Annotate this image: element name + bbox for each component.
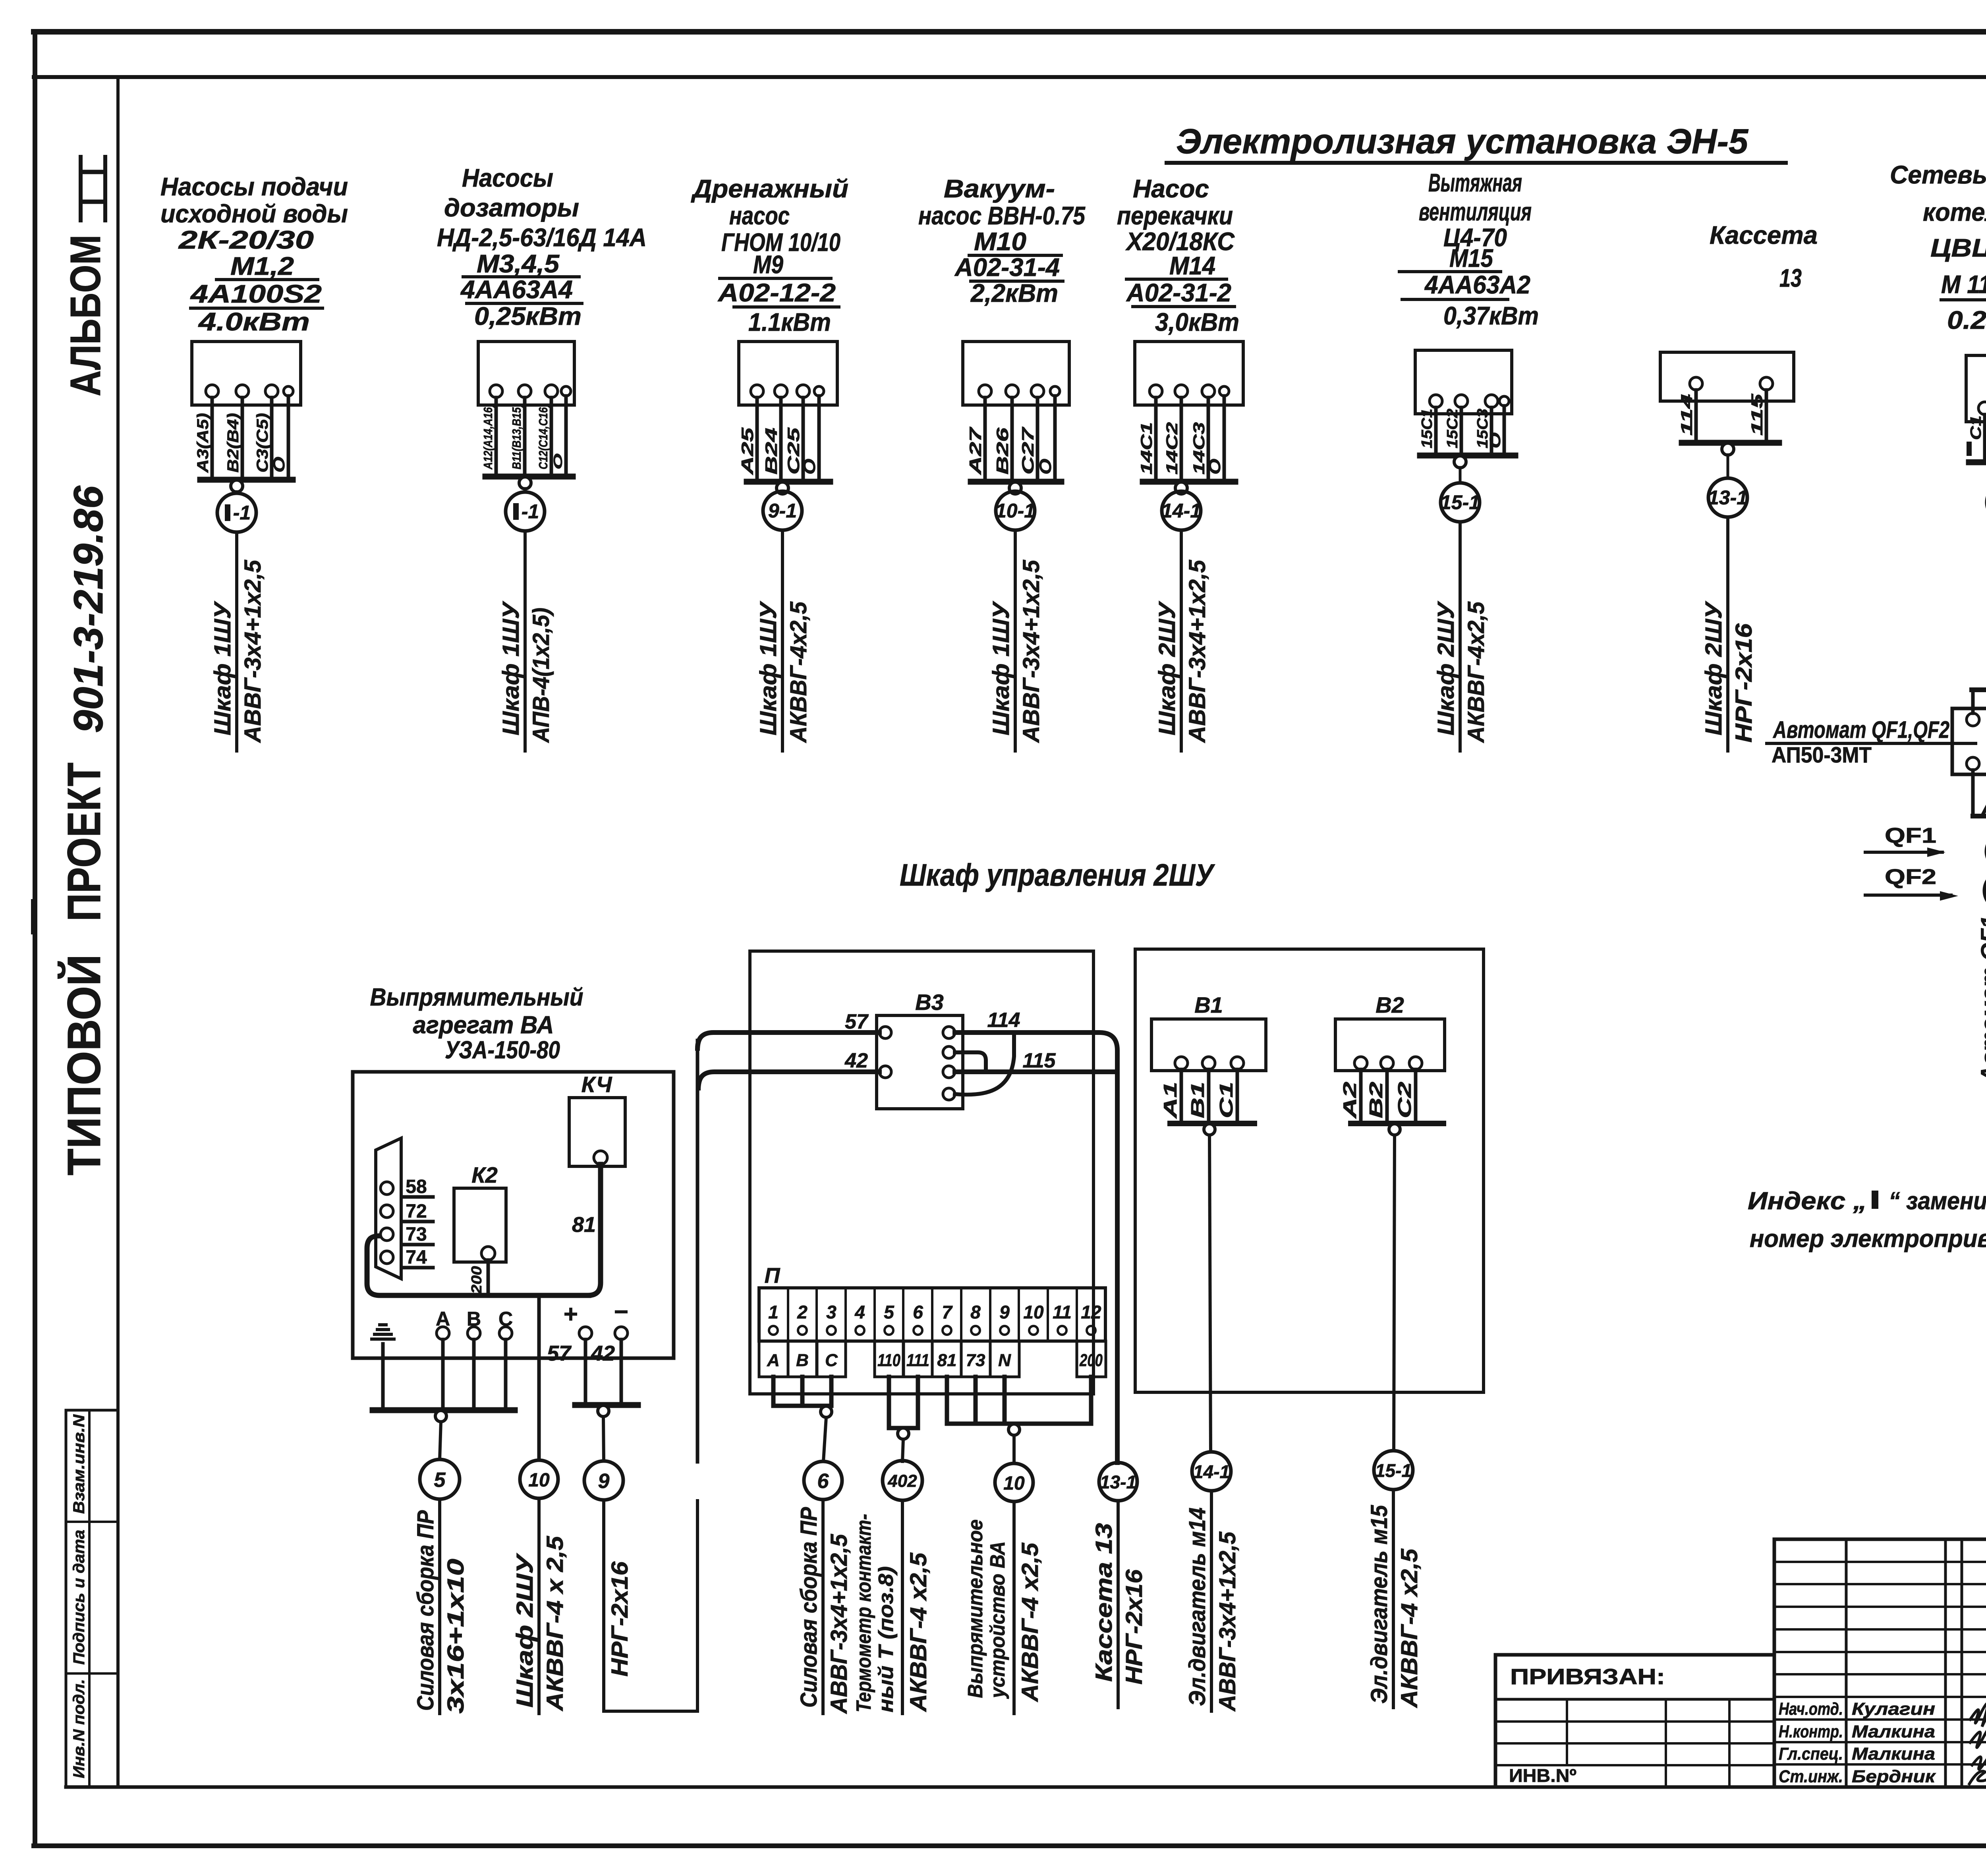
svg-text:Эл.двигатель м14: Эл.двигатель м14 xyxy=(1184,1507,1210,1706)
svg-text:О: О xyxy=(1487,432,1504,448)
label Выпрямительный агрегат ВА УЗА-150-80 xyxy=(370,984,583,1064)
wire to cable 10 xyxy=(537,1295,541,1460)
svg-text:ЦВЦ 6.3-3.5: ЦВЦ 6.3-3.5 xyxy=(1930,234,1986,262)
svg-text:А02-31-2: А02-31-2 xyxy=(1126,278,1231,307)
svg-text:Шкаф управления 2ШУ: Шкаф управления 2ШУ xyxy=(900,857,1215,892)
svg-text:Нач.отд.: Нач.отд. xyxy=(1779,1699,1843,1719)
transfer pump column M14 (Насос перекачки Х20/18КС) xyxy=(1117,174,1243,751)
terminal plus 57 xyxy=(547,1301,592,1405)
svg-text:N: N xyxy=(998,1351,1011,1370)
svg-text:Шкаф 1ШУ: Шкаф 1ШУ xyxy=(498,601,524,735)
node 13-1 xyxy=(1099,1463,1137,1501)
svg-text:С27: С27 xyxy=(1018,427,1037,475)
svg-text:АКВВГ-4 х2,5: АКВВГ-4 х2,5 xyxy=(1017,1542,1043,1702)
signature row Н.контр. Малкина xyxy=(1779,1722,1935,1741)
svg-text:насос ВВН-0.75: насос ВВН-0.75 xyxy=(918,201,1086,230)
svg-text:4АА63А2: 4АА63А2 xyxy=(1424,270,1530,299)
cabinet 2ШУ right box xyxy=(1135,949,1484,1392)
svg-text:дозаторы: дозаторы xyxy=(444,193,579,222)
svg-text:А1: А1 xyxy=(1160,1082,1180,1119)
cable Шкаф 2ШУ АКВВГ-4х2,5 xyxy=(512,1498,568,1714)
svg-text:Н.контр.: Н.контр. xyxy=(1779,1722,1843,1741)
svg-text:Термометр контакт-: Термометр контакт- xyxy=(852,1514,875,1712)
margin fold mark xyxy=(31,902,37,931)
svg-text:А3(А5): А3(А5) xyxy=(194,413,212,473)
svg-text:А2: А2 xyxy=(1339,1081,1360,1119)
svg-text:73: 73 xyxy=(966,1351,985,1370)
node 6 xyxy=(804,1461,842,1500)
svg-text:С1: С1 xyxy=(1216,1082,1236,1118)
svg-text:Кассета 13: Кассета 13 xyxy=(1091,1523,1117,1682)
margin stamp column boxes xyxy=(66,1410,118,1787)
svg-text:Кулагин: Кулагин xyxy=(1852,1699,1935,1719)
svg-text:АПВ-4(1х2,5): АПВ-4(1х2,5) xyxy=(528,608,554,743)
svg-text:15С1: 15С1 xyxy=(1419,409,1435,448)
svg-text:ный Т (поз.8): ный Т (поз.8) xyxy=(875,1566,898,1712)
bus bar VA dc xyxy=(575,1405,638,1461)
node 15-1 xyxy=(1374,1451,1413,1490)
bus bar V1 xyxy=(1170,1123,1254,1452)
svg-text:Насос: Насос xyxy=(1133,174,1209,203)
svg-text:0,37кВт: 0,37кВт xyxy=(1443,301,1539,330)
svg-text:Выпрямительное: Выпрямительное xyxy=(964,1519,987,1698)
margin title ТИПОВОЙ xyxy=(57,954,110,1175)
svg-text:14-1: 14-1 xyxy=(1193,1461,1230,1482)
svg-text:НРГ-2х16: НРГ-2х16 xyxy=(1121,1569,1147,1685)
node 10 (VA) xyxy=(520,1460,558,1498)
terminal B xyxy=(467,1308,481,1410)
svg-text:АВВГ-3х4+1х2,5: АВВГ-3х4+1х2,5 xyxy=(1184,560,1210,743)
svg-text:72: 72 xyxy=(406,1201,427,1222)
svg-text:9: 9 xyxy=(999,1302,1010,1322)
jumper V3 a xyxy=(955,1052,986,1070)
svg-text:насос: насос xyxy=(729,201,790,230)
svg-text:М10: М10 xyxy=(974,227,1026,256)
svg-text:М 11,12: М 11,12 xyxy=(1941,270,1986,299)
starter V1 xyxy=(1151,992,1266,1123)
svg-text:-1: -1 xyxy=(522,500,539,523)
svg-text:НРГ-2х16: НРГ-2х16 xyxy=(607,1561,633,1677)
svg-text:В3: В3 xyxy=(915,990,944,1015)
svg-text:устройство ВА: устройство ВА xyxy=(986,1541,1009,1699)
svg-text:Насосы подачи: Насосы подачи xyxy=(160,172,348,201)
svg-text:В26: В26 xyxy=(993,427,1012,475)
title Электролизная установка ЭН-5 xyxy=(1167,122,1786,163)
bus bar VA abc xyxy=(373,1410,515,1459)
svg-text:10: 10 xyxy=(528,1470,550,1491)
pump column M1,2 (Насосы подачи исходной воды 2К-20/30) xyxy=(160,172,348,751)
bus bar V2 xyxy=(1351,1123,1443,1451)
cable Термометр контактный Т (node 402) xyxy=(852,1500,931,1714)
margin title АЛЬБОМ xyxy=(61,235,109,396)
node 5 xyxy=(420,1459,460,1499)
svg-text:Автомат QF1,QF2: Автомат QF1,QF2 xyxy=(1772,716,1949,743)
svg-text:115: 115 xyxy=(1748,394,1766,436)
svg-text:Сетевые насосы: Сетевые насосы xyxy=(1890,160,1986,189)
label ПРИВЯЗАН xyxy=(1510,1664,1665,1689)
svg-text:901-3-219.86: 901-3-219.86 xyxy=(66,485,112,733)
margin title ПРОЕКТ xyxy=(58,762,110,921)
svg-text:М1,2: М1,2 xyxy=(230,252,294,280)
svg-text:Подпись и дата: Подпись и дата xyxy=(70,1530,88,1665)
cabinet 2ШУ left box xyxy=(750,951,1093,1394)
wire 81 xyxy=(572,1164,601,1295)
svg-text:Шкаф 2ШУ: Шкаф 2ШУ xyxy=(1154,601,1180,735)
signature row Нач.отд. Кулагин xyxy=(1779,1699,1935,1719)
svg-text:А02-31-4: А02-31-4 xyxy=(954,253,1060,282)
terminal A xyxy=(436,1308,450,1410)
node 10 (strip) xyxy=(995,1463,1033,1502)
svg-text:котельной: котельной xyxy=(1923,198,1986,226)
switch V3 xyxy=(877,990,963,1109)
svg-text:В: В xyxy=(796,1351,809,1370)
label QF1 with arrow xyxy=(1865,824,1945,857)
svg-text:58: 58 xyxy=(406,1176,427,1197)
exhaust fan column M15 (Вытяжная вентиляция Ц4-70) xyxy=(1399,168,1539,751)
svg-text:Гл.спец.: Гл.спец. xyxy=(1779,1744,1843,1764)
svg-text:О: О xyxy=(270,457,288,473)
wire cable Автомат QF1 xyxy=(1976,906,1986,1087)
svg-text:2К-20/30: 2К-20/30 xyxy=(178,226,314,254)
svg-text:3,0кВт: 3,0кВт xyxy=(1155,308,1239,336)
svg-text:Шкаф 1ШУ: Шкаф 1ШУ xyxy=(988,601,1014,735)
label ИНВ.№ xyxy=(1509,1765,1576,1786)
wire 9 riser xyxy=(696,1040,699,1462)
svg-text:ПРИВЯЗАН:: ПРИВЯЗАН: xyxy=(1510,1664,1665,1689)
svg-text:73: 73 xyxy=(406,1224,427,1245)
svg-text:10: 10 xyxy=(1003,1473,1025,1494)
svg-text:15-1: 15-1 xyxy=(1375,1460,1412,1481)
svg-text:14С2: 14С2 xyxy=(1163,422,1181,475)
svg-text:вентиляция: вентиляция xyxy=(1419,197,1532,226)
svg-text:В1: В1 xyxy=(1187,1082,1208,1118)
cassette column 13 (Кассета 13) xyxy=(1660,221,1818,751)
svg-text:13-1: 13-1 xyxy=(1708,486,1748,509)
svg-text:81: 81 xyxy=(572,1213,596,1237)
svg-text:А27: А27 xyxy=(966,427,985,475)
margin label Инв.N подл. xyxy=(70,1679,88,1778)
label Автомат QF1,QF2 / АП50-3МТ xyxy=(1767,716,1976,767)
margin label Взам.инв.N xyxy=(70,1414,88,1514)
svg-text:М15: М15 xyxy=(1449,244,1493,272)
svg-text:О: О xyxy=(1036,459,1055,475)
svg-text:А12(А14,А16): А12(А14,А16) xyxy=(481,404,495,470)
svg-text:Кассета: Кассета xyxy=(1710,221,1818,249)
svg-text:А25: А25 xyxy=(738,427,757,475)
signature row Гл.спец. Малкина xyxy=(1779,1744,1935,1764)
connector pin 58 xyxy=(402,1176,433,1197)
svg-text:0.24кВт: 0.24кВт xyxy=(1947,306,1986,334)
svg-text:Вакуум-: Вакуум- xyxy=(944,174,1055,203)
svg-text:АКВВГ-4х2,5: АКВВГ-4х2,5 xyxy=(1463,601,1489,743)
svg-text:57: 57 xyxy=(547,1341,572,1365)
svg-text:О: О xyxy=(551,454,565,469)
svg-text:А02-12-2: А02-12-2 xyxy=(717,278,836,307)
signature row Ст.инж. Бердник xyxy=(1779,1767,1936,1786)
starter V2 xyxy=(1335,992,1445,1123)
svg-text:114: 114 xyxy=(1678,394,1696,436)
svg-text:Взам.инв.N: Взам.инв.N xyxy=(70,1414,88,1514)
wire 115 xyxy=(955,1049,1115,1072)
svg-text:К2: К2 xyxy=(471,1162,498,1187)
svg-text:АЛЬБОМ: АЛЬБОМ xyxy=(61,235,109,396)
svg-text:111: 111 xyxy=(906,1351,929,1370)
svg-text:13: 13 xyxy=(1779,264,1802,292)
svg-text:2,2кВт: 2,2кВт xyxy=(970,279,1058,307)
connector X1 xyxy=(376,1138,401,1279)
terminal minus 42 xyxy=(591,1298,628,1405)
svg-text:200: 200 xyxy=(1079,1351,1103,1370)
cable Эл.двигатель М15 xyxy=(1366,1490,1422,1708)
svg-text:А: А xyxy=(767,1351,780,1370)
wire 57 xyxy=(697,1010,879,1048)
svg-text:6: 6 xyxy=(817,1470,829,1493)
svg-text:Инв.N подл.: Инв.N подл. xyxy=(70,1679,88,1778)
svg-text:3х16+1х10: 3х16+1х10 xyxy=(443,1559,469,1714)
svg-text:Шкаф 2ШУ: Шкаф 2ШУ xyxy=(1433,601,1459,735)
svg-text:АКВВГ-4 х2,5: АКВВГ-4 х2,5 xyxy=(906,1552,931,1712)
svg-text:М14: М14 xyxy=(1169,251,1215,280)
note line 2 xyxy=(1750,1225,1986,1253)
svg-text:УЗА-150-80: УЗА-150-80 xyxy=(445,1036,560,1064)
svg-text:9: 9 xyxy=(598,1470,610,1493)
svg-text:10: 10 xyxy=(1023,1302,1044,1322)
cable Выпрямительное устройство ВА (node 10) xyxy=(964,1502,1043,1714)
svg-text:57: 57 xyxy=(845,1010,869,1033)
margin numeral II xyxy=(81,157,105,220)
note line 1 xyxy=(1748,1187,1986,1215)
svg-text:Силовая сборка ПР: Силовая сборка ПР xyxy=(413,1510,439,1711)
svg-text:8: 8 xyxy=(970,1302,981,1322)
svg-text:агрегат ВА: агрегат ВА xyxy=(413,1011,554,1039)
svg-text:ТИПОВОЙ: ТИПОВОЙ xyxy=(57,954,110,1175)
node 9 (VA) xyxy=(584,1461,623,1500)
svg-text:5: 5 xyxy=(884,1302,894,1322)
svg-text:АВВГ-3х4+1х2,5: АВВГ-3х4+1х2,5 xyxy=(1215,1531,1240,1712)
wire 42 xyxy=(698,1049,879,1088)
wire 200 xyxy=(468,1260,488,1295)
svg-text:В24: В24 xyxy=(762,428,780,475)
svg-text:Насосы: Насосы xyxy=(462,164,553,192)
svg-text:М3,4,5: М3,4,5 xyxy=(477,249,560,278)
svg-text:Силовая сборка ПР: Силовая сборка ПР xyxy=(796,1507,822,1708)
svg-text:42: 42 xyxy=(844,1049,868,1072)
terminal strip П xyxy=(759,1264,1106,1377)
svg-text:Эл.двигатель м15: Эл.двигатель м15 xyxy=(1366,1505,1392,1704)
wire 114 xyxy=(955,1009,1117,1463)
cable 9 U-link НРГ-2х16 xyxy=(604,1500,697,1711)
svg-text:7: 7 xyxy=(942,1302,953,1322)
svg-text:4А100S2: 4А100S2 xyxy=(190,280,322,308)
svg-text:0,25кВт: 0,25кВт xyxy=(474,302,582,330)
svg-text:5: 5 xyxy=(434,1469,446,1492)
svg-text:Бердник: Бердник xyxy=(1852,1767,1936,1786)
svg-text:В11(В13,В15): В11(В13,В15) xyxy=(510,404,524,469)
vacuum pump column M10 (Вакуум-насос ВВН-0.75) xyxy=(918,174,1086,751)
svg-text:С3(С5): С3(С5) xyxy=(254,413,271,473)
svg-text:11: 11 xyxy=(1053,1302,1072,1322)
svg-text:Шкаф 1ШУ: Шкаф 1ШУ xyxy=(755,601,781,735)
margin title 901-3-219.86 xyxy=(66,485,112,733)
svg-text:НРГ-2х16: НРГ-2х16 xyxy=(1731,623,1757,743)
svg-text:исходной воды: исходной воды xyxy=(160,199,348,228)
svg-text:QF2: QF2 xyxy=(1885,865,1936,889)
svg-text:ИНВ.Nº: ИНВ.Nº xyxy=(1509,1765,1576,1786)
svg-text:+: + xyxy=(564,1301,578,1328)
svg-text:Малкина: Малкина xyxy=(1852,1744,1935,1764)
svg-text:О: О xyxy=(1206,459,1224,475)
svg-text:АВВГ-3х4+1х2,5: АВВГ-3х4+1х2,5 xyxy=(1018,560,1044,743)
svg-text:14-1: 14-1 xyxy=(1161,500,1201,522)
svg-text:42: 42 xyxy=(591,1341,615,1365)
svg-text:114: 114 xyxy=(987,1009,1020,1032)
svg-text:4АА63А4: 4АА63А4 xyxy=(460,275,573,304)
svg-text:110: 110 xyxy=(877,1351,900,1370)
svg-text:Дренажный: Дренажный xyxy=(691,174,848,203)
svg-text:“ заменить на соответствующ: “ заменить на соответствующий xyxy=(1889,1187,1986,1215)
svg-text:14С3: 14С3 xyxy=(1190,422,1208,475)
connector pin 74 xyxy=(402,1247,433,1268)
svg-text:АВВГ-3х4+1х2,5: АВВГ-3х4+1х2,5 xyxy=(240,560,266,743)
svg-text:1.1кВт: 1.1кВт xyxy=(748,308,831,336)
svg-text:9-1: 9-1 xyxy=(768,500,797,522)
margin label Подпись и дата xyxy=(70,1530,88,1665)
relay K2 xyxy=(454,1162,506,1262)
wire internal bus VA xyxy=(367,1236,589,1295)
svg-text:П: П xyxy=(765,1264,780,1287)
wire strip ABC to node 6 xyxy=(773,1377,832,1461)
svg-text:С2: С2 xyxy=(1394,1081,1415,1118)
svg-text:74: 74 xyxy=(406,1247,427,1268)
svg-text:Малкина: Малкина xyxy=(1852,1722,1935,1741)
node 14-1 xyxy=(1192,1452,1231,1491)
ground xyxy=(372,1325,394,1410)
svg-text:Индекс „: Индекс „ xyxy=(1748,1187,1867,1215)
svg-text:Шкаф 1ШУ: Шкаф 1ШУ xyxy=(210,601,236,735)
jumper V3 b xyxy=(955,1035,1014,1095)
svg-text:14С1: 14С1 xyxy=(1138,422,1155,475)
cable Кассета 13 НРГ-2х16 xyxy=(1091,1501,1147,1708)
svg-text:В1: В1 xyxy=(1194,992,1223,1017)
network pumps column M11,12 (Сетевые насосы котельной ЦВЦ 6.3-3.5) xyxy=(1890,160,1986,673)
svg-text:115: 115 xyxy=(1023,1049,1056,1072)
wire strip 110,111 to node 402 xyxy=(889,1377,918,1461)
svg-text:номер электропривода: номер электропривода xyxy=(1750,1225,1986,1253)
drain pump column M9 (Дренажный насос ГНОМ 10/10) xyxy=(691,174,848,751)
svg-text:АКВВГ-4х2,5: АКВВГ-4х2,5 xyxy=(786,601,811,743)
svg-text:4: 4 xyxy=(854,1302,865,1322)
svg-text:200: 200 xyxy=(468,1266,485,1294)
svg-text:ПРОЕКТ: ПРОЕКТ xyxy=(58,762,110,921)
svg-text:АВВГ-3х4+1х2,5: АВВГ-3х4+1х2,5 xyxy=(826,1534,852,1714)
svg-text:АКВВГ-4 х2,5: АКВВГ-4 х2,5 xyxy=(1397,1548,1422,1708)
svg-text:Шкаф 2ШУ: Шкаф 2ШУ xyxy=(512,1553,538,1708)
svg-text:2: 2 xyxy=(797,1302,808,1322)
cable Силовая сборка ПР 3х16+1х10 xyxy=(413,1499,469,1714)
rectifier VA box xyxy=(353,1072,674,1358)
svg-text:13-1: 13-1 xyxy=(1100,1472,1136,1492)
svg-text:15-1: 15-1 xyxy=(1440,491,1480,513)
svg-text:Ст.инж.: Ст.инж. xyxy=(1779,1767,1843,1786)
ПРИВЯЗАН block grid xyxy=(1495,1655,1774,1787)
svg-text:4.0кВт: 4.0кВт xyxy=(198,307,310,336)
svg-text:М9: М9 xyxy=(753,250,783,279)
signature table grid xyxy=(1774,1539,1986,1787)
svg-text:КЧ: КЧ xyxy=(582,1072,612,1097)
dosing pumps column M3,4,5 (Насосы дозаторы НД-2,5-63/16Д) xyxy=(437,164,647,751)
svg-text:81: 81 xyxy=(937,1351,957,1370)
node 402 xyxy=(883,1461,922,1500)
circuit breaker QF1,QF2 (АП50-3МТ) xyxy=(1952,677,1986,833)
svg-text:С: С xyxy=(825,1351,838,1370)
svg-text:В2: В2 xyxy=(1366,1081,1386,1118)
svg-text:1: 1 xyxy=(768,1302,779,1322)
title Шкаф управления 2ШУ xyxy=(900,857,1215,892)
svg-text:402: 402 xyxy=(887,1471,917,1491)
svg-text:-1: -1 xyxy=(233,502,251,524)
relay KЧ xyxy=(569,1072,625,1166)
svg-text:3: 3 xyxy=(826,1302,837,1322)
cable Эл.двигатель М14 xyxy=(1184,1491,1240,1712)
svg-text:АКВВГ-4 х 2,5: АКВВГ-4 х 2,5 xyxy=(542,1536,568,1712)
label QF2 with arrow xyxy=(1865,865,1958,901)
svg-text:12: 12 xyxy=(1081,1302,1101,1322)
svg-text:QF1: QF1 xyxy=(1885,824,1936,847)
svg-text:6: 6 xyxy=(913,1302,923,1322)
svg-text:О: О xyxy=(800,459,819,475)
svg-text:С1: С1 xyxy=(1968,415,1984,440)
connector pin 73 xyxy=(402,1224,433,1245)
node 4 left xyxy=(1984,872,1986,910)
svg-text:С12(С14,С16): С12(С14,С16) xyxy=(536,404,550,469)
svg-text:−: − xyxy=(614,1298,628,1326)
svg-text:АП50-3МТ: АП50-3МТ xyxy=(1772,742,1872,767)
svg-text:Шкаф 2ШУ: Шкаф 2ШУ xyxy=(1701,601,1727,735)
svg-text:В2(В4): В2(В4) xyxy=(224,413,242,473)
terminal C xyxy=(498,1308,513,1410)
wire strip 81,73,N,200 to node 10 xyxy=(947,1377,1091,1463)
svg-text:Вытяжная: Вытяжная xyxy=(1428,168,1522,197)
svg-text:В2: В2 xyxy=(1376,992,1404,1017)
svg-text:НД-2,5-63/16Д 14А: НД-2,5-63/16Д 14А xyxy=(437,223,647,252)
connector pin 72 xyxy=(402,1201,433,1222)
svg-text:Автомат QF1: Автомат QF1 xyxy=(1976,916,1986,1083)
svg-text:10-1: 10-1 xyxy=(995,500,1035,522)
svg-text:15С2: 15С2 xyxy=(1444,409,1461,448)
svg-text:Выпрямительный: Выпрямительный xyxy=(370,984,583,1011)
cable Силовая сборка ПР АВВГ (node 6) xyxy=(796,1500,852,1714)
signatures squiggles xyxy=(1969,1703,1986,1784)
svg-text:перекачки: перекачки xyxy=(1117,201,1233,230)
svg-text:Электролизная установка ЭН-5: Электролизная установка ЭН-5 xyxy=(1176,122,1748,161)
